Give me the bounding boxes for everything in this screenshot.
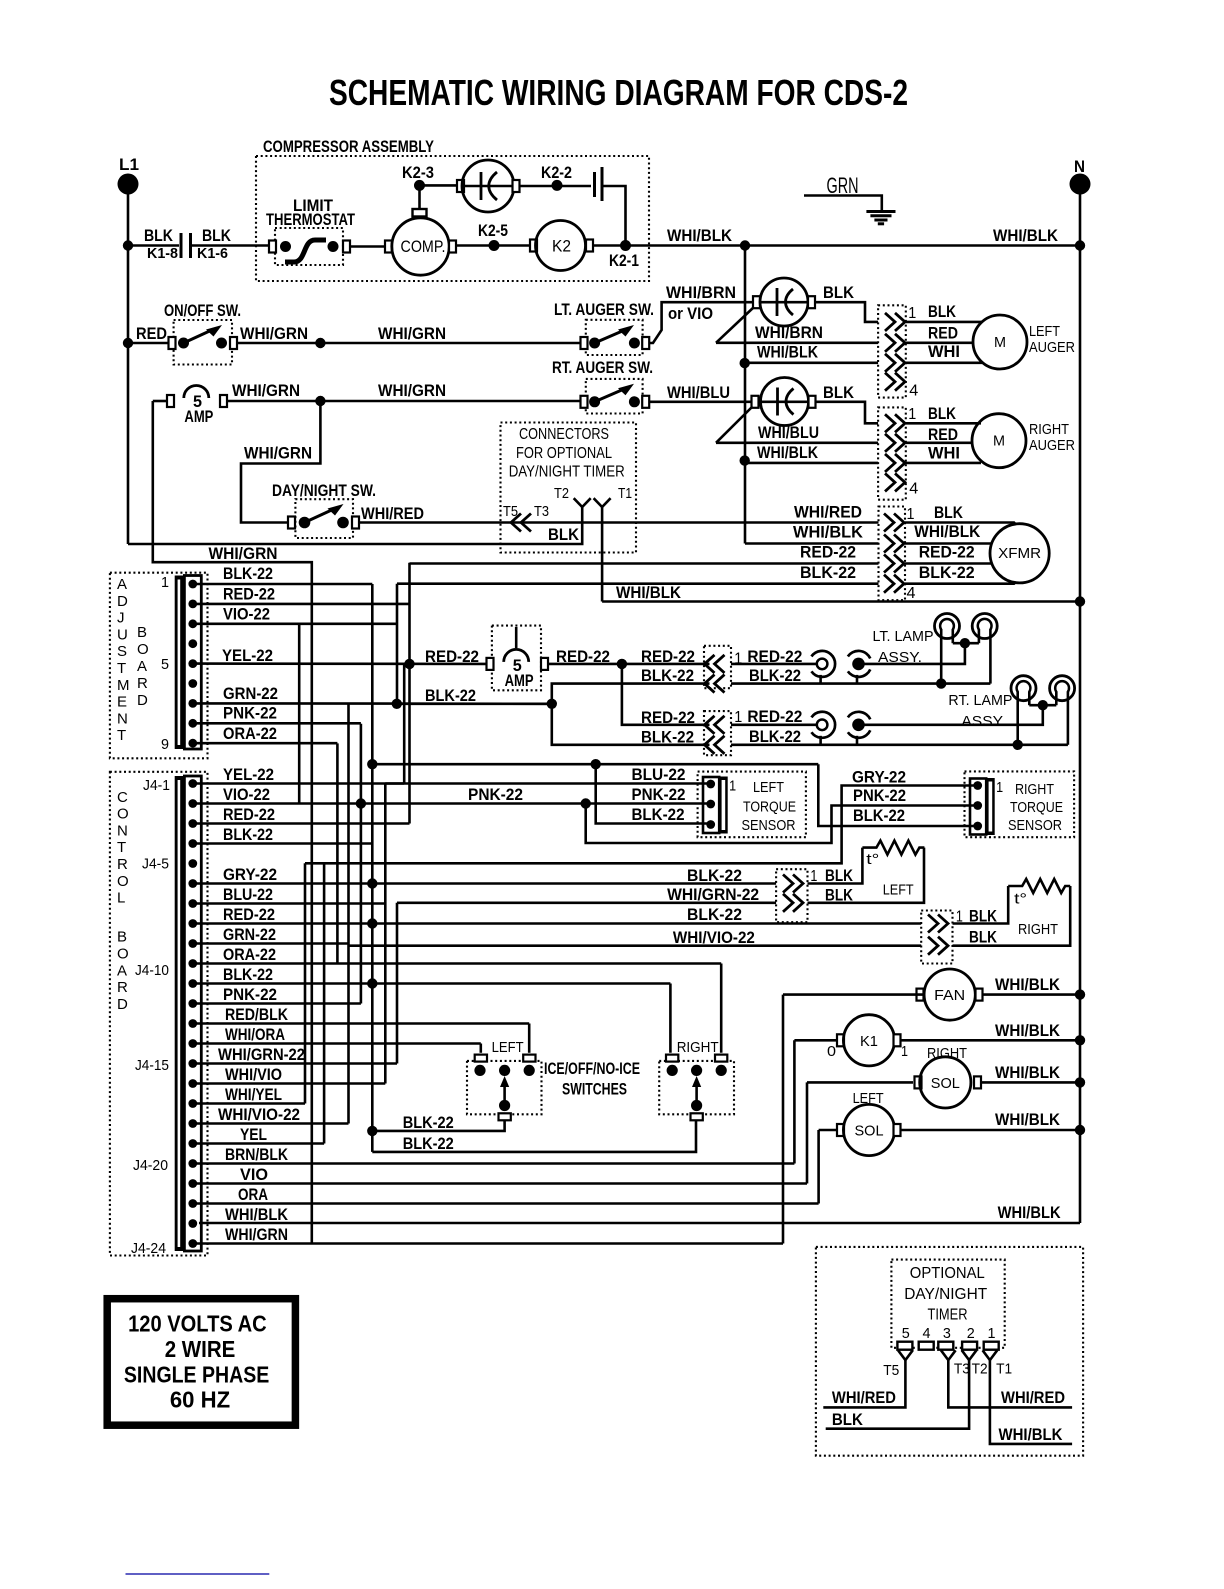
svg-text:LEFT: LEFT: [753, 779, 784, 796]
svg-text:A: A: [137, 658, 147, 675]
wire T1 drop: [601, 507, 604, 602]
svg-text:U: U: [117, 626, 128, 643]
connector right auger chevron box: [878, 407, 906, 499]
wire WHI/BLK to N: [745, 244, 1080, 247]
svg-text:WHI/BLK: WHI/BLK: [998, 1203, 1062, 1222]
svg-text:D: D: [117, 593, 128, 610]
fan motor FAN: [782, 995, 785, 1244]
wire ORA-22 adjustment pin9: [197, 742, 337, 745]
wire ORA riser: [336, 743, 339, 963]
svg-text:D: D: [137, 692, 148, 709]
motor COMP.: [385, 241, 392, 253]
wire right bus vertical: [744, 246, 747, 544]
wire COMP to K2: [456, 244, 530, 247]
node junction right bus: [740, 240, 750, 250]
svg-text:BLK: BLK: [823, 283, 855, 302]
svg-text:t°: t°: [1014, 891, 1027, 908]
svg-text:5: 5: [161, 656, 169, 673]
svg-text:3: 3: [943, 1325, 951, 1342]
wire BLK-22 adjustment pin1: [197, 583, 372, 586]
wire ORA-22 to right ice switch: [720, 964, 723, 1053]
svg-text:R: R: [117, 856, 128, 873]
svg-text:WHI/BLK: WHI/BLK: [667, 226, 733, 245]
svg-text:THERMOSTAT: THERMOSTAT: [266, 210, 355, 229]
svg-text:0: 0: [827, 1043, 836, 1060]
svg-text:WHI/GRN-22: WHI/GRN-22: [667, 885, 759, 904]
wire RED-22 to RT lamp row: [622, 664, 710, 725]
wire GRN-22 adjustment pin7 lamp return row: [197, 702, 552, 705]
svg-text:WHI/GRN: WHI/GRN: [378, 381, 446, 400]
svg-text:WHI/BLK: WHI/BLK: [757, 443, 819, 462]
svg-text:B: B: [137, 624, 147, 641]
fuse 5 AMP: [153, 400, 167, 403]
node K2-2: [552, 180, 563, 191]
wire diagonal cap to WHI/BLU row: [716, 407, 753, 443]
120 volts label box: [107, 1299, 295, 1426]
svg-text:T: T: [117, 839, 126, 856]
svg-text:BLK-22: BLK-22: [403, 1134, 454, 1153]
svg-text:ON/OFF SW.: ON/OFF SW.: [164, 301, 241, 320]
wire BLU / WHI-VIO riser: [384, 784, 387, 1084]
wire RED-22 row3 from riser: [410, 562, 879, 565]
svg-text:1: 1: [734, 709, 742, 726]
svg-text:D: D: [117, 996, 128, 1013]
wire RED/BLK to left ice switch: [528, 1024, 531, 1053]
svg-text:RIGHT: RIGHT: [1029, 421, 1069, 438]
connector T1 fork timer: [983, 1350, 998, 1360]
svg-text:WHI/BRN: WHI/BRN: [666, 283, 736, 302]
wire SOL right to N: [981, 1081, 1080, 1084]
svg-text:J: J: [117, 610, 125, 627]
node WHI/GRN junction: [315, 338, 325, 348]
wire bullet to lamp: [865, 643, 965, 664]
wire WHI/GRN fuse drop: [153, 401, 312, 1244]
svg-text:COMPRESSOR ASSEMBLY: COMPRESSOR ASSEMBLY: [263, 137, 435, 156]
node LT lamp junction: [960, 638, 970, 648]
solenoid SOL right: [806, 1082, 809, 1183]
wire GRY-22 row to right sensor: [305, 786, 974, 864]
svg-text:WHI/BLK: WHI/BLK: [995, 975, 1061, 994]
svg-text:RED/BLK: RED/BLK: [225, 1005, 289, 1024]
blue underline: [126, 1573, 270, 1575]
timer terminals: [897, 1342, 912, 1350]
svg-text:TORQUE: TORQUE: [1010, 799, 1063, 816]
connector T2 fork timer: [962, 1350, 977, 1360]
svg-text:C: C: [117, 789, 128, 806]
svg-text:LEFT: LEFT: [492, 1039, 524, 1056]
svg-text:or VIO: or VIO: [668, 304, 713, 323]
wire BLK-22 control J4-4: [197, 842, 372, 845]
svg-text:R: R: [137, 675, 148, 692]
svg-text:T2: T2: [554, 485, 569, 502]
svg-text:OPTIONAL: OPTIONAL: [910, 1265, 985, 1282]
wire GRY/YEL riser: [323, 863, 326, 1143]
wire BLK to limit thermostat: [191, 244, 270, 247]
svg-text:1: 1: [907, 506, 915, 523]
svg-text:RT. AUGER SW.: RT. AUGER SW.: [552, 358, 653, 377]
wire WHI/GRN control J4-24: [197, 1242, 783, 1245]
wire WHI/BLK bus to XFMR row2: [745, 542, 879, 545]
wire capacitor to K2-2: [519, 185, 591, 188]
svg-text:RED-22: RED-22: [800, 543, 856, 562]
svg-text:BLK-22: BLK-22: [223, 825, 273, 844]
svg-text:RED-22: RED-22: [223, 585, 275, 604]
bullet connector pair LT lamp: [811, 651, 835, 677]
svg-text:BLK-22: BLK-22: [223, 965, 273, 984]
svg-text:ORA-22: ORA-22: [223, 945, 276, 964]
adjustment board box: [110, 573, 208, 759]
svg-text:M: M: [993, 433, 1005, 450]
svg-text:1: 1: [161, 574, 169, 591]
svg-text:BLU-22: BLU-22: [223, 885, 273, 904]
wire GRY-22 control J4-6: [197, 882, 776, 885]
node PNK-22 split: [581, 798, 591, 808]
svg-text:TIMER: TIMER: [928, 1307, 968, 1324]
wire YEL control J4-19: [197, 1142, 324, 1145]
wire T5 drop: [823, 1360, 905, 1407]
svg-text:BLK-22: BLK-22: [425, 686, 476, 705]
svg-text:BLK-22: BLK-22: [403, 1113, 454, 1132]
wire BLK row to RT lamp: [731, 743, 1068, 746]
wire YEL-22 adjustment pin5 to lamp fuse row: [197, 662, 488, 665]
svg-text:WHI/VIO-22: WHI/VIO-22: [673, 928, 755, 947]
wire RED-22 to bullet: [731, 663, 817, 666]
svg-text:ORA-22: ORA-22: [223, 724, 277, 743]
svg-text:2 WIRE: 2 WIRE: [165, 1336, 236, 1362]
node WHI/BLK branch right auger: [740, 455, 750, 465]
connector box for optional day/night timer: [501, 423, 637, 553]
wire VIO control J4-21: [197, 1182, 807, 1185]
wire BLK-22 to RT lamp row: [552, 704, 710, 745]
node RT lamp BLK junction: [1013, 740, 1023, 750]
svg-text:BLK-22: BLK-22: [641, 666, 694, 685]
svg-text:WHI/BLK: WHI/BLK: [225, 1205, 289, 1224]
svg-text:K2-1: K2-1: [609, 251, 639, 270]
svg-text:T1: T1: [618, 485, 632, 502]
svg-text:WHI/BLK: WHI/BLK: [914, 522, 981, 541]
svg-text:T1: T1: [996, 1361, 1012, 1378]
svg-text:CONNECTORS: CONNECTORS: [519, 426, 609, 443]
svg-text:1: 1: [908, 406, 916, 423]
svg-text:WHI/VIO-22: WHI/VIO-22: [218, 1105, 300, 1124]
wire L1 rail: [127, 184, 130, 544]
relay K1: [793, 1040, 796, 1163]
svg-text:WHI: WHI: [928, 444, 960, 463]
svg-text:WHI/GRN: WHI/GRN: [240, 324, 308, 343]
svg-text:9: 9: [161, 736, 169, 753]
svg-text:SENSOR: SENSOR: [1008, 817, 1062, 834]
svg-text:SOL: SOL: [855, 1123, 884, 1140]
svg-text:1: 1: [988, 1325, 996, 1342]
optional day/night timer outer box: [816, 1247, 1083, 1456]
svg-text:WHI/GRN: WHI/GRN: [378, 324, 446, 343]
svg-text:BLK: BLK: [934, 503, 964, 522]
svg-text:PNK-22: PNK-22: [223, 985, 277, 1004]
node RED-22 split: [617, 659, 627, 669]
svg-text:AUGER: AUGER: [1029, 339, 1075, 356]
left torque sensor: [698, 772, 806, 838]
wire WHI/GRN-22 control J4-15: [197, 1062, 397, 1065]
svg-text:WHI/GRN-22: WHI/GRN-22: [218, 1045, 305, 1064]
svg-text:RT. LAMP: RT. LAMP: [948, 692, 1012, 709]
wire VIO-22 control J4-2: [197, 802, 361, 805]
svg-text:FAN: FAN: [934, 987, 965, 1004]
svg-text:BLK-22: BLK-22: [919, 563, 975, 582]
svg-text:BRN/BLK: BRN/BLK: [225, 1145, 289, 1164]
wire BLK-22 to right sensor: [818, 764, 974, 826]
svg-text:K2-3: K2-3: [402, 163, 434, 182]
wire thermostat to COMP: [350, 245, 388, 248]
svg-text:E: E: [117, 694, 127, 711]
svg-text:K1: K1: [860, 1033, 878, 1050]
svg-text:WHI/GRN: WHI/GRN: [232, 381, 300, 400]
wire right ice switch BLK-22: [372, 1120, 696, 1152]
thermistor left: [808, 848, 863, 884]
capacitor contact K1-8/K1-6: [180, 233, 183, 258]
wire YEL-22 control J4-1: [197, 782, 404, 785]
connector T5 fork timer: [898, 1350, 913, 1360]
wire WHI/GRN to RT auger switch: [320, 400, 582, 403]
wire WHI/ORA control J4-14: [197, 1042, 481, 1045]
wire RED-22 to bullet RT: [731, 723, 817, 726]
svg-text:WHI: WHI: [928, 342, 960, 361]
svg-text:RED-22: RED-22: [641, 708, 695, 727]
wire GRN-22 control J4-9: [197, 942, 349, 945]
wire WHI/YEL control J4-17: [197, 1102, 305, 1105]
terminal COMP top: [413, 209, 427, 217]
svg-text:WHI/GRN: WHI/GRN: [244, 444, 312, 463]
svg-text:1: 1: [901, 1043, 908, 1060]
svg-text:ICE/OFF/NO-ICE: ICE/OFF/NO-ICE: [544, 1059, 640, 1078]
wire BLK-22 to right ice switch: [669, 984, 672, 1053]
svg-text:TORQUE: TORQUE: [743, 799, 796, 816]
wire lamp legs RT: [1029, 704, 1056, 707]
wire T3 drop to WHI/RED right: [948, 1360, 1072, 1407]
wire chevron to XFMR: [905, 523, 1016, 525]
svg-text:SWITCHES: SWITCHES: [562, 1080, 627, 1099]
svg-text:RIGHT: RIGHT: [677, 1039, 719, 1056]
svg-text:K1-6: K1-6: [197, 245, 228, 262]
svg-text:BLK-22: BLK-22: [853, 806, 905, 825]
svg-text:J4-24: J4-24: [131, 1240, 166, 1257]
node WHI/BLK branch left auger: [740, 358, 750, 368]
svg-text:VIO: VIO: [240, 1165, 268, 1184]
svg-text:BLK: BLK: [823, 383, 855, 402]
node RED-22 lamp junction: [404, 659, 414, 669]
svg-text:RED-22: RED-22: [641, 647, 695, 666]
wire BLK row to LT lamp: [731, 682, 990, 685]
wire ORA-22 control J4-10: [197, 962, 721, 965]
svg-text:T3: T3: [954, 1361, 970, 1378]
svg-text:LT. AUGER SW.: LT. AUGER SW.: [554, 300, 654, 319]
svg-text:BLK: BLK: [825, 866, 854, 885]
wire BLK-22 to LT lamp row: [552, 684, 710, 704]
svg-text:LT. LAMP: LT. LAMP: [873, 628, 934, 645]
svg-text:AUGER: AUGER: [1029, 437, 1075, 454]
node LT lamp BLK junction: [936, 678, 946, 688]
svg-text:5: 5: [902, 1325, 910, 1342]
wire BLU-22 control J4-7: [197, 902, 385, 905]
lamp socket LT 2: [972, 614, 997, 639]
svg-text:RED-22: RED-22: [223, 805, 275, 824]
lamp socket RT 1: [1011, 676, 1036, 701]
svg-text:RED: RED: [928, 425, 958, 444]
svg-text:O: O: [137, 641, 149, 658]
wire T2 drop to BLK: [826, 1360, 969, 1429]
wire diagonal cap to WHI/BRN row: [716, 307, 754, 343]
svg-text:K2-5: K2-5: [478, 221, 508, 240]
wire BLK L1 to connector T2: [128, 507, 582, 544]
wire WHI/GRN fuse row: [227, 400, 320, 403]
node fuse row junction: [315, 396, 325, 406]
wire PNK-22 to right sensor: [586, 804, 974, 844]
svg-text:AMP: AMP: [184, 407, 213, 426]
wire PNK-22 row to left sensor: [361, 802, 707, 805]
svg-text:WHI/YEL: WHI/YEL: [225, 1085, 282, 1104]
svg-text:RED-22: RED-22: [919, 543, 975, 562]
svg-text:J4-20: J4-20: [133, 1157, 168, 1174]
svg-text:J4-5: J4-5: [142, 856, 169, 873]
lamp socket LT 1: [935, 614, 960, 639]
svg-text:N: N: [117, 710, 128, 727]
wire BLK-22 row4 from riser: [397, 582, 879, 585]
svg-text:M: M: [994, 334, 1006, 351]
svg-text:BLK-22: BLK-22: [687, 905, 742, 924]
svg-text:T5: T5: [883, 1362, 899, 1379]
svg-text:WHI/BLK: WHI/BLK: [999, 1425, 1064, 1444]
wire YEL riser: [403, 664, 406, 784]
ground: [866, 210, 895, 213]
wire bullet to RT lamp: [865, 705, 1043, 725]
connector T2 fork: [574, 498, 591, 507]
svg-text:PNK-22: PNK-22: [468, 785, 523, 804]
wire FAN to N: [982, 993, 1080, 996]
connector T1 fork: [594, 498, 611, 507]
wire WHI/GRN: [237, 342, 320, 345]
wire BLK from L1: [123, 240, 133, 250]
svg-text:WHI/BLK: WHI/BLK: [995, 1021, 1061, 1040]
svg-text:1: 1: [908, 305, 916, 322]
node L1-RED junction: [123, 338, 133, 348]
svg-text:BLK: BLK: [928, 404, 957, 423]
svg-text:LEFT: LEFT: [883, 882, 914, 899]
node BLK-22 sensor split: [591, 759, 601, 769]
svg-text:WHI/BLK: WHI/BLK: [757, 343, 819, 362]
wire left ice switch BLK-22: [372, 1120, 504, 1131]
right torque sensor: [965, 771, 1075, 837]
svg-text:4: 4: [907, 585, 916, 602]
lamp socket RT 2: [1050, 676, 1075, 701]
motor M right auger: [972, 414, 1026, 468]
control board box: [110, 772, 208, 1256]
svg-text:T2: T2: [972, 1361, 988, 1378]
adjustment board connector: [175, 576, 185, 750]
svg-text:WHI/VIO: WHI/VIO: [225, 1065, 282, 1084]
svg-text:VIO-22: VIO-22: [223, 785, 270, 804]
node K2-5: [489, 240, 500, 251]
wire N rail bottom to control board WHI/BLK row: [199, 1222, 1080, 1225]
svg-text:BLK-22: BLK-22: [749, 727, 801, 746]
wire cap to chevron row1: [815, 302, 878, 322]
svg-text:WHI/BRN: WHI/BRN: [755, 323, 823, 342]
wire RED to switch: [128, 342, 171, 345]
svg-text:J4-10: J4-10: [135, 962, 169, 979]
transformer XFMR: [990, 524, 1049, 583]
svg-text:T: T: [117, 660, 126, 677]
wire BLK-22 bus vertical: [371, 584, 374, 1152]
relay coil K2: [530, 240, 537, 252]
svg-text:WHI/BLK: WHI/BLK: [616, 583, 682, 602]
wire RED/BLK control J4-13: [197, 1022, 529, 1025]
wire BLK-22 top row to sensors: [372, 763, 818, 766]
wire WHI/GRN to LT auger switch: [320, 342, 582, 345]
node BLK-22 lamp junction: [392, 699, 402, 709]
svg-text:RED-22: RED-22: [223, 905, 275, 924]
connector left thermistor chevron box: [776, 869, 807, 922]
wire fuse to lamp junction: [548, 663, 710, 666]
wire chevron to right auger motor: [906, 422, 981, 425]
wire WHI/GRN-22 riser: [396, 903, 399, 1064]
wire BLK-22 to left sensor: [596, 764, 707, 823]
svg-text:BLK-22: BLK-22: [223, 564, 273, 583]
svg-text:WHI/BLK: WHI/BLK: [995, 1063, 1061, 1082]
node RT lamp junction: [1038, 700, 1048, 710]
node K2-3: [414, 180, 425, 191]
svg-text:BLK: BLK: [144, 226, 174, 245]
svg-text:BLK: BLK: [202, 226, 232, 245]
svg-text:R: R: [117, 979, 128, 996]
svg-text:PNK-22: PNK-22: [223, 703, 277, 722]
svg-text:XFMR: XFMR: [998, 545, 1041, 562]
wire T1 drop to WHI/BLK: [990, 1360, 1072, 1444]
svg-text:SCHEMATIC WIRING DIAGRAM FOR C: SCHEMATIC WIRING DIAGRAM FOR CDS-2: [329, 72, 908, 113]
svg-text:BLK-22: BLK-22: [641, 728, 694, 747]
wire WHI/YEL riser: [304, 863, 307, 1103]
svg-text:AMP: AMP: [505, 671, 534, 690]
svg-text:RIGHT: RIGHT: [1018, 921, 1058, 938]
connector right thermistor chevron box: [921, 911, 952, 964]
optional day/night timer inner box: [891, 1260, 1004, 1348]
svg-text:FOR OPTIONAL: FOR OPTIONAL: [516, 445, 612, 462]
svg-text:t°: t°: [866, 851, 879, 868]
wire SOL left to N: [900, 1129, 1080, 1132]
svg-text:RED-22: RED-22: [747, 707, 802, 726]
svg-text:T: T: [117, 727, 126, 744]
svg-text:4: 4: [923, 1325, 931, 1342]
svg-text:A: A: [117, 962, 127, 979]
wire VIO/BLK riser: [396, 584, 399, 704]
connector RT lamp chevron box: [704, 711, 731, 755]
capacitor K2-2/K2-1: [593, 172, 596, 197]
svg-text:SENSOR: SENSOR: [742, 817, 796, 834]
wire PNK-22 adjustment pin8: [197, 722, 361, 725]
svg-text:VIO-22: VIO-22: [223, 605, 270, 624]
svg-text:LEFT: LEFT: [1029, 323, 1060, 340]
wire WHI/GRN drop to day/night switch: [241, 401, 320, 523]
connector left auger chevron box: [878, 305, 906, 397]
svg-text:PNK-22: PNK-22: [632, 785, 686, 804]
svg-text:O: O: [117, 946, 129, 963]
wire WHI/BLK row3: [745, 462, 878, 465]
svg-text:S: S: [117, 643, 127, 660]
wire RT auger switch to run cap: [649, 400, 751, 403]
wire K2-3 to run capacitor: [420, 184, 460, 187]
svg-text:COMP.: COMP.: [401, 238, 446, 256]
control board connector: [175, 776, 185, 1251]
wire BLK-22 control J4-11: [197, 982, 670, 985]
svg-text:1: 1: [729, 778, 736, 795]
connector XFMR chevron box: [879, 507, 906, 601]
